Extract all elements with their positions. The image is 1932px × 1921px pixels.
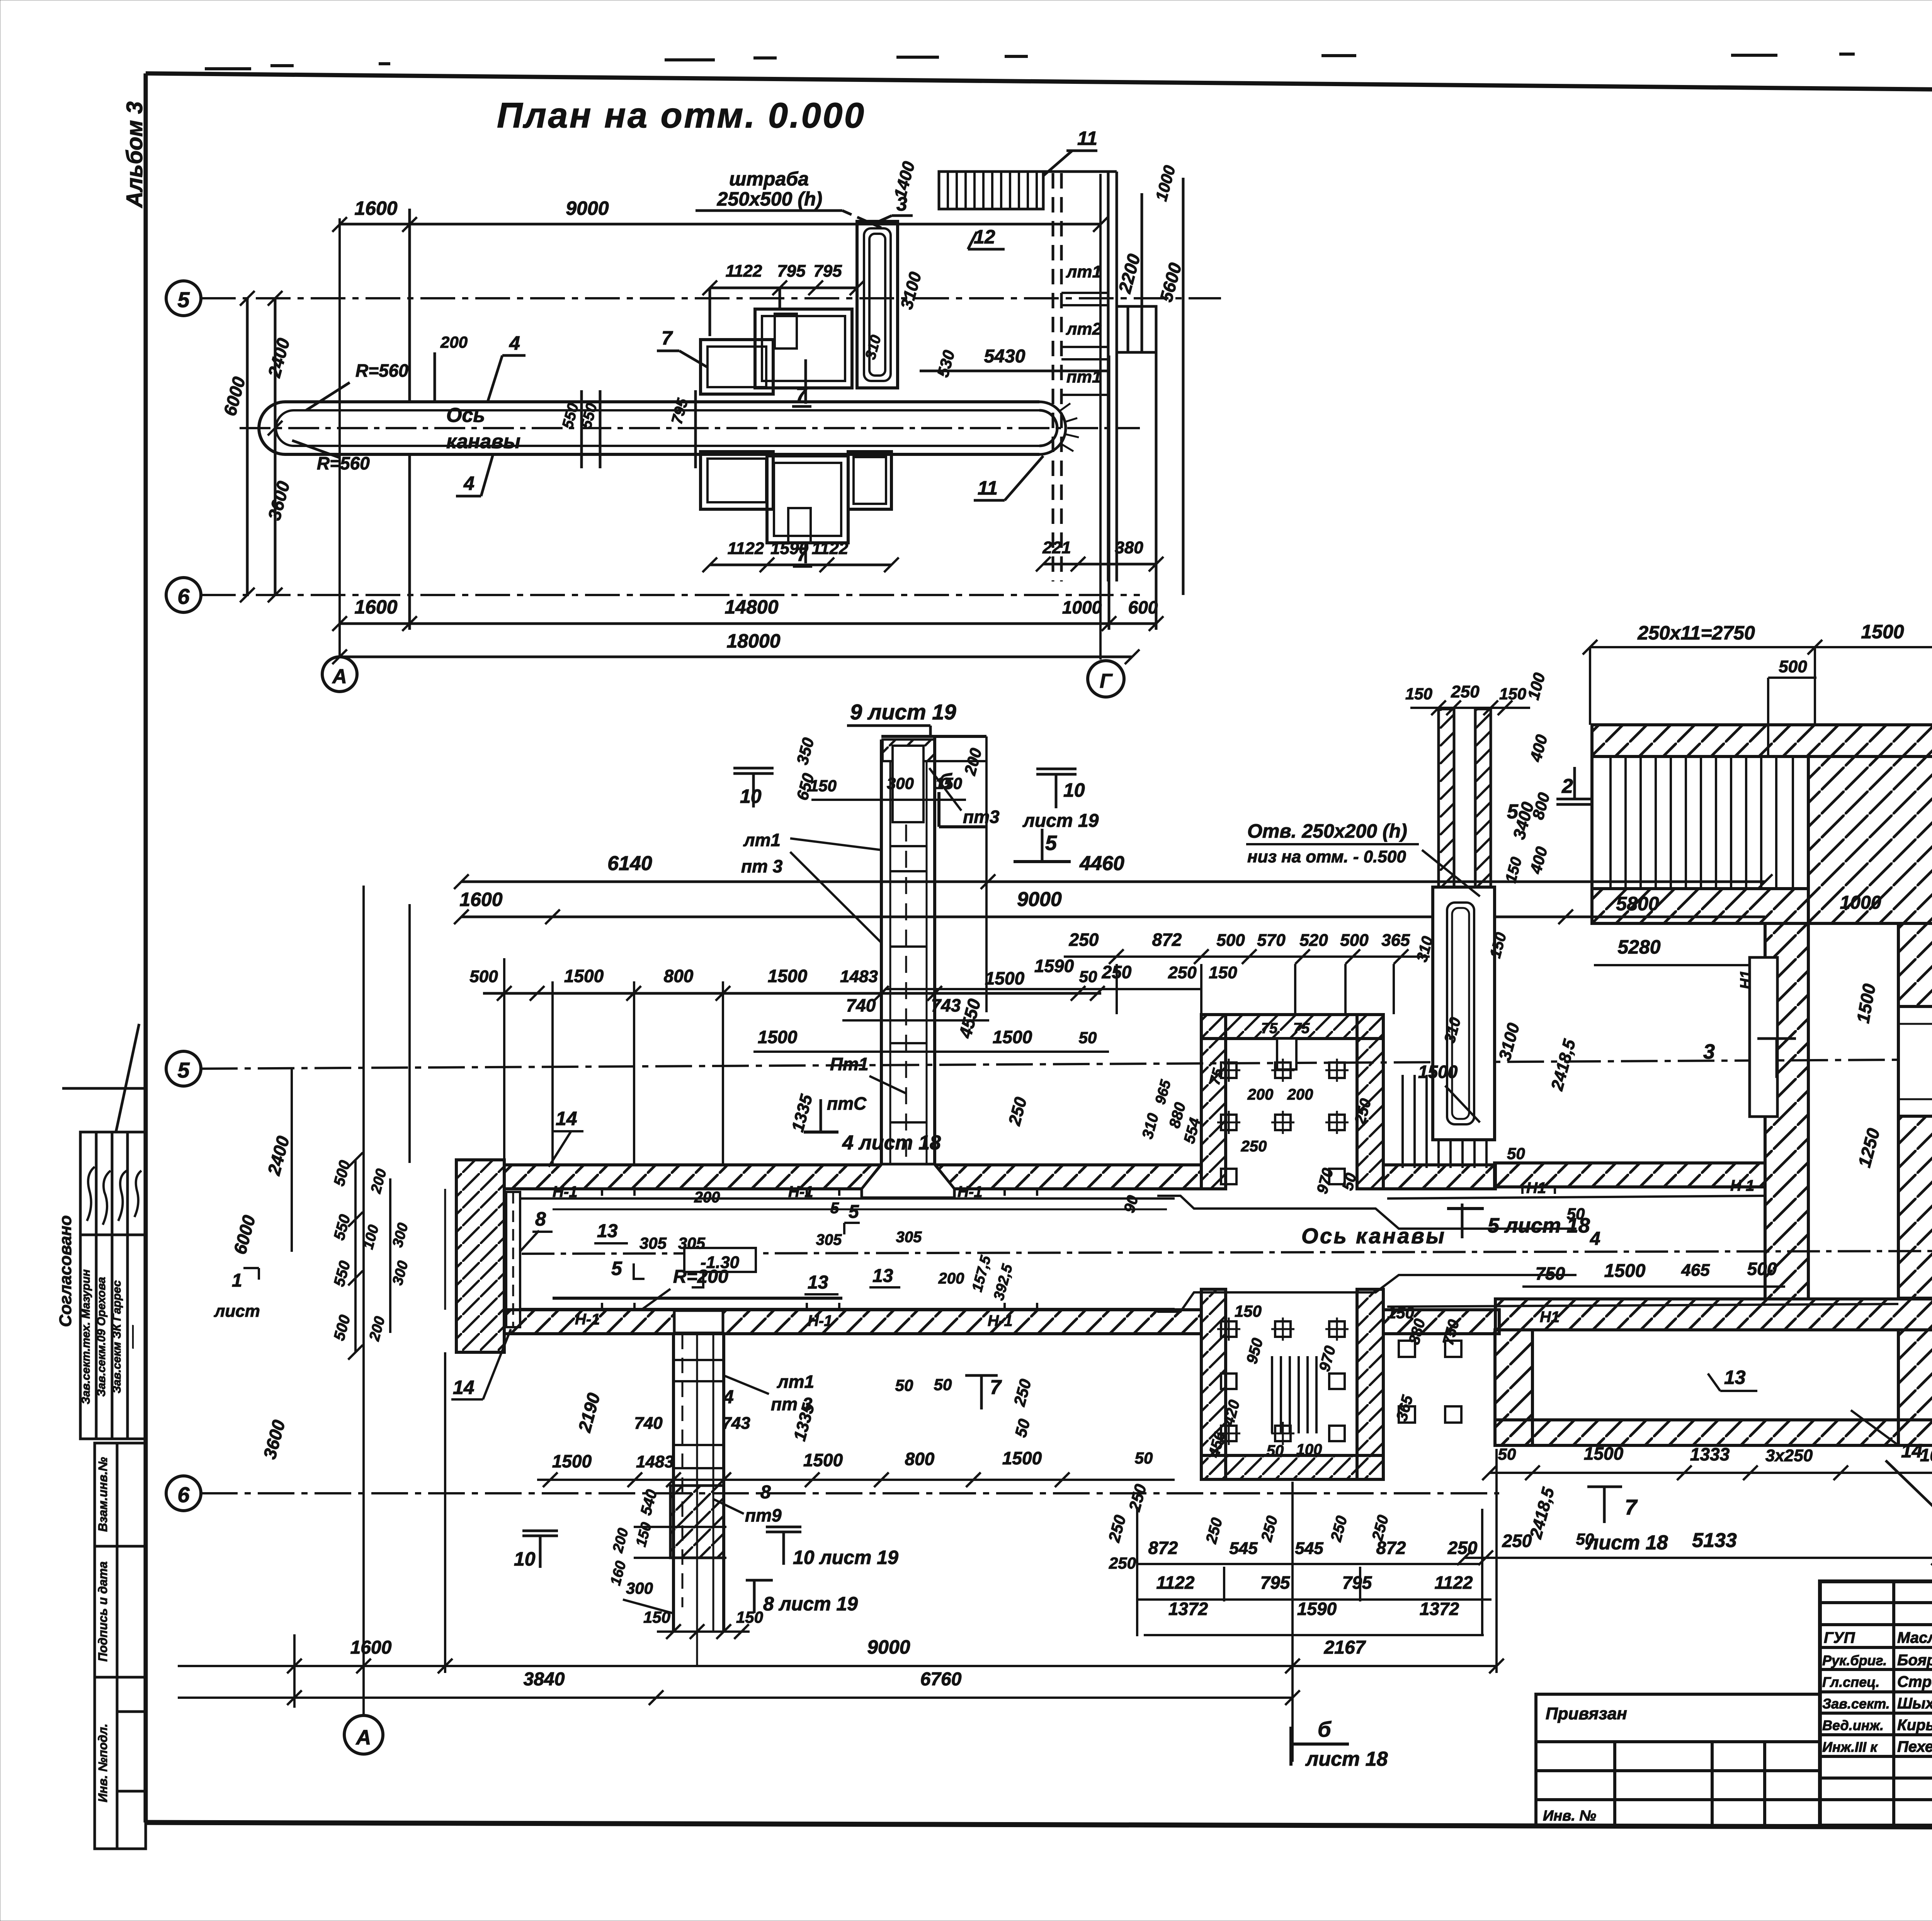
axis A circle (322, 657, 357, 692)
svg-text:2167: 2167 (1324, 1637, 1366, 1658)
right riser walls top plan (1052, 173, 1054, 581)
svg-text:200: 200 (938, 1270, 964, 1287)
dims 1122 1590 1122 bottom (710, 564, 891, 566)
svg-text:392,5: 392,5 (991, 1262, 1016, 1302)
svg-text:1000: 1000 (1920, 1445, 1932, 1465)
svg-text:1500: 1500 (1584, 1443, 1624, 1464)
main border frame (146, 73, 1932, 96)
svg-text:7: 7 (990, 1376, 1002, 1399)
svg-text:365: 365 (1381, 931, 1410, 950)
svg-text:2418,5: 2418,5 (1548, 1037, 1580, 1093)
svg-text:1500: 1500 (768, 966, 808, 986)
top dim line 1600/9000 (340, 223, 1100, 226)
svg-text:500: 500 (331, 1313, 354, 1343)
svg-text:канавы: канавы (446, 430, 520, 453)
upper grate (1403, 1075, 1486, 1168)
extension verticals upper left (408, 904, 411, 1163)
svg-text:ГУП: ГУП (1824, 1629, 1855, 1646)
svg-text:300: 300 (626, 1579, 653, 1597)
svg-text:400: 400 (1526, 845, 1551, 876)
svg-text:50: 50 (1567, 1205, 1585, 1223)
svg-text:11: 11 (978, 477, 998, 499)
svg-text:Инв. №: Инв. № (1543, 1808, 1596, 1824)
svg-text:2400: 2400 (264, 336, 294, 380)
axis 6 circle (166, 1476, 201, 1511)
dim 5430 (920, 370, 1108, 372)
svg-text:10: 10 (740, 785, 762, 807)
svg-text:400: 400 (1526, 733, 1551, 764)
pads lower cluster (701, 452, 891, 543)
extension verticals bottom (408, 454, 411, 630)
svg-text:14: 14 (1901, 1440, 1923, 1462)
shaft bottom dim (657, 1630, 750, 1633)
svg-text:200: 200 (1287, 1086, 1313, 1103)
svg-text:лт1: лт1 (1066, 262, 1102, 281)
svg-text:8: 8 (760, 1482, 771, 1503)
riser funnel into corridor (862, 1165, 881, 1198)
svg-text:6760: 6760 (920, 1669, 962, 1690)
svg-text:птС: птС (827, 1093, 867, 1113)
svg-text:795: 795 (813, 262, 842, 280)
svg-text:2190: 2190 (574, 1391, 604, 1435)
svg-text:465: 465 (1681, 1261, 1710, 1280)
svg-text:3840: 3840 (524, 1669, 565, 1690)
axis G line (1099, 174, 1102, 660)
svg-text:150: 150 (935, 774, 962, 792)
section sym 5 list mid (1461, 1204, 1464, 1238)
svg-text:6140: 6140 (607, 852, 652, 875)
svg-text:800: 800 (664, 966, 694, 986)
svg-text:3100: 3100 (897, 270, 925, 311)
svg-text:75: 75 (1293, 1020, 1310, 1037)
inventory strip (95, 1443, 146, 1849)
axis 5 circle (166, 281, 201, 316)
svg-text:13: 13 (808, 1272, 828, 1293)
svg-text:Шыхратова: Шыхратова (1897, 1695, 1932, 1712)
svg-text:300: 300 (389, 1259, 412, 1287)
axis 5 line (201, 297, 1221, 299)
approval signatures squiggles (87, 1167, 95, 1221)
svg-text:1: 1 (232, 1270, 242, 1291)
sheet top scan dashes (205, 53, 1932, 69)
right slot element strips (1439, 709, 1454, 889)
right slot element body (1433, 887, 1495, 1140)
svg-text:250: 250 (1447, 1538, 1478, 1558)
svg-text:штраба: штраба (729, 168, 809, 190)
lower right room walls (1495, 1330, 1532, 1445)
svg-text:570: 570 (1257, 931, 1286, 950)
svg-text:500: 500 (1340, 931, 1369, 950)
svg-text:550: 550 (331, 1213, 354, 1242)
axis 5 line bottom plan (201, 1059, 1932, 1069)
svg-text:250: 250 (1451, 682, 1480, 701)
svg-text:5: 5 (830, 1200, 839, 1217)
svg-text:5133: 5133 (1692, 1529, 1737, 1552)
svg-text:4: 4 (723, 1387, 734, 1408)
section sym 7 lower (965, 1374, 998, 1377)
svg-text:50: 50 (1267, 1442, 1284, 1459)
svg-text:Взам.инв.№: Взам.инв.№ (96, 1457, 110, 1532)
svg-text:13: 13 (872, 1266, 893, 1286)
svg-text:90: 90 (1121, 1193, 1141, 1214)
svg-text:250: 250 (1069, 930, 1099, 950)
svg-text:Инж.III к: Инж.III к (1822, 1739, 1878, 1755)
svg-text:10: 10 (514, 1548, 536, 1570)
svg-text:500: 500 (1216, 931, 1245, 950)
svg-text:Н-1: Н-1 (808, 1312, 832, 1329)
svg-text:50: 50 (1079, 1028, 1097, 1047)
svg-text:лт1: лт1 (777, 1372, 814, 1392)
svg-text:1500: 1500 (1604, 1261, 1646, 1281)
axis 6 circle (166, 578, 201, 612)
svg-text:200: 200 (694, 1189, 720, 1206)
svg-text:лт1: лт1 (743, 830, 781, 850)
svg-text:Вед.инж.: Вед.инж. (1822, 1717, 1884, 1733)
lower right sub pads (1399, 1341, 1415, 1357)
svg-text:1333: 1333 (1690, 1444, 1730, 1464)
svg-text:лист 18: лист 18 (1305, 1748, 1388, 1770)
bottom dim row2 (178, 1697, 1293, 1699)
svg-text:Рук.бриг.: Рук.бриг. (1822, 1652, 1887, 1668)
svg-text:1500: 1500 (1418, 1062, 1458, 1082)
svg-text:500: 500 (1747, 1259, 1777, 1279)
svg-text:250: 250 (1109, 1554, 1136, 1572)
riser rungs (890, 846, 927, 1122)
svg-text:50: 50 (1011, 1417, 1033, 1439)
svg-text:200: 200 (366, 1315, 388, 1343)
svg-text:650: 650 (793, 771, 818, 802)
dim 5600 (1182, 178, 1185, 595)
svg-text:50: 50 (934, 1375, 952, 1394)
svg-text:545: 545 (1229, 1539, 1258, 1558)
svg-text:1122: 1122 (1156, 1572, 1195, 1593)
approval stamp table (80, 1132, 146, 1439)
svg-text:5: 5 (177, 1058, 190, 1082)
element 3 slot (857, 221, 898, 388)
svg-text:6000: 6000 (219, 374, 249, 418)
staff grid rows (1820, 1601, 1932, 1604)
pads upper cluster (701, 309, 852, 394)
svg-text:250: 250 (1105, 1513, 1129, 1544)
svg-text:1600: 1600 (354, 197, 397, 219)
top dim row 1600/9000 (461, 916, 1765, 918)
svg-text:лист 18: лист 18 (1585, 1532, 1668, 1554)
svg-text:310: 310 (1139, 1112, 1162, 1141)
svg-text:200: 200 (440, 333, 468, 351)
svg-text:1500: 1500 (1861, 621, 1904, 643)
svg-text:2400: 2400 (264, 1134, 293, 1178)
svg-text:520: 520 (1299, 931, 1328, 950)
top dim row 6140/4460 (461, 881, 1765, 883)
riser column shaft top (880, 739, 883, 1165)
svg-text:Н-1: Н-1 (553, 1183, 577, 1200)
svg-text:18000: 18000 (726, 630, 780, 652)
svg-text:Привязан: Привязан (1546, 1704, 1627, 1723)
svg-text:1335: 1335 (788, 1092, 816, 1134)
svg-text:250: 250 (1241, 1138, 1267, 1155)
svg-text:3600: 3600 (259, 1418, 289, 1461)
svg-text:150: 150 (1387, 1304, 1414, 1322)
svg-text:221: 221 (1042, 538, 1071, 557)
svg-text:150: 150 (633, 1521, 655, 1549)
svg-text:Гл.спец.: Гл.спец. (1822, 1674, 1879, 1690)
svg-text:Н-1: Н-1 (788, 1183, 813, 1200)
lower pads squares (1217, 1317, 1349, 1445)
extension verticals bottom (293, 1634, 296, 1708)
svg-text:100: 100 (1524, 671, 1549, 702)
svg-text:лт2: лт2 (1066, 320, 1102, 338)
svg-text:14: 14 (556, 1108, 577, 1129)
svg-text:365: 365 (1393, 1393, 1417, 1423)
svg-text:4: 4 (463, 473, 474, 494)
svg-text:970: 970 (1314, 1166, 1337, 1196)
trench inner (276, 410, 1039, 446)
corridor inner lines (521, 1197, 1175, 1200)
svg-text:Зав.сект.тех. Мазурин: Зав.сект.тех. Мазурин (80, 1269, 92, 1404)
svg-text:1500: 1500 (993, 1027, 1032, 1047)
svg-text:795: 795 (1342, 1572, 1372, 1593)
svg-text:пт3: пт3 (963, 807, 1000, 827)
svg-text:300: 300 (389, 1221, 412, 1249)
left end block (456, 1160, 504, 1352)
svg-text:157,5: 157,5 (969, 1254, 994, 1294)
staff grid columns (1892, 1581, 1895, 1826)
svg-text:1590: 1590 (1297, 1599, 1337, 1619)
svg-text:1500: 1500 (758, 1027, 798, 1047)
svg-text:9000: 9000 (867, 1636, 910, 1658)
room door opening (1898, 1006, 1932, 1116)
svg-text:2200: 2200 (1114, 252, 1144, 296)
svg-text:Зав.секм ЗК Гаррес: Зав.секм ЗК Гаррес (111, 1280, 123, 1393)
svg-text:250: 250 (1168, 963, 1197, 982)
svg-text:50: 50 (1507, 1144, 1525, 1163)
cell ticks right riser (1061, 293, 1108, 395)
svg-text:305: 305 (678, 1234, 706, 1252)
svg-text:1600: 1600 (354, 596, 397, 618)
svg-text:4: 4 (1590, 1229, 1600, 1249)
svg-text:150: 150 (1209, 963, 1237, 982)
svg-text:9000: 9000 (1017, 888, 1062, 911)
svg-text:Н1: Н1 (1526, 1180, 1546, 1197)
svg-text:5800: 5800 (1616, 893, 1659, 915)
stair shaft bottom (672, 1334, 675, 1632)
svg-text:Н-1: Н-1 (957, 1183, 982, 1200)
svg-text:Н 1: Н 1 (1730, 1177, 1754, 1194)
section sym 10 right riser (1036, 769, 1077, 774)
big room top wall (1592, 725, 1932, 756)
svg-text:250: 250 (1327, 1514, 1350, 1544)
svg-text:872: 872 (1152, 930, 1182, 950)
dim 2200 (1141, 193, 1143, 352)
svg-text:300: 300 (887, 774, 914, 792)
svg-text:50: 50 (1135, 1449, 1153, 1467)
axis A circle (344, 1715, 383, 1754)
svg-text:3: 3 (896, 193, 907, 215)
svg-text:1000: 1000 (1062, 597, 1102, 617)
section sym 4 list18 (804, 1130, 838, 1134)
svg-text:743: 743 (722, 1414, 750, 1433)
svg-text:8: 8 (535, 1208, 546, 1230)
riser cap hatch (883, 739, 935, 761)
axis 6 line (201, 594, 1140, 596)
svg-text:4460: 4460 (1079, 852, 1124, 875)
svg-text:750: 750 (1536, 1263, 1565, 1283)
svg-text:250: 250 (1005, 1095, 1031, 1128)
svg-text:1500: 1500 (564, 966, 604, 986)
big room outer (1592, 725, 1932, 1298)
dims 221 380 (1043, 563, 1156, 566)
svg-text:150: 150 (1235, 1302, 1262, 1320)
trench right cap (1039, 402, 1066, 454)
svg-text:1122: 1122 (812, 539, 849, 558)
svg-text:R=560: R=560 (317, 453, 370, 473)
svg-text:10: 10 (1063, 779, 1085, 801)
privyazan table (1536, 1694, 1820, 1826)
dim 5133 line (1464, 1557, 1932, 1559)
svg-text:Согласовано: Согласовано (56, 1215, 75, 1327)
svg-text:14: 14 (453, 1377, 474, 1398)
svg-text:Ось канавы: Ось канавы (1301, 1224, 1444, 1248)
svg-text:Н1: Н1 (1540, 1309, 1560, 1326)
svg-text:1483: 1483 (636, 1452, 674, 1471)
bottom dim 18000 (340, 656, 1132, 658)
svg-text:1000: 1000 (1152, 163, 1179, 203)
svg-text:13: 13 (597, 1221, 618, 1241)
svg-text:9 лист 19: 9 лист 19 (850, 700, 956, 724)
svg-text:5: 5 (1045, 831, 1057, 855)
left niche bracket (506, 1192, 520, 1327)
svg-text:Пт1: Пт1 (830, 1054, 869, 1074)
svg-text:3100: 3100 (1495, 1021, 1524, 1062)
svg-text:6000: 6000 (230, 1213, 259, 1256)
svg-text:50: 50 (1498, 1445, 1516, 1463)
svg-text:75: 75 (1261, 1020, 1278, 1037)
svg-text:А: А (355, 1726, 371, 1749)
corridor lower hatched band (504, 1310, 1201, 1334)
svg-text:380: 380 (1115, 538, 1143, 557)
svg-text:1122: 1122 (1435, 1572, 1473, 1593)
section sym 10 left riser (733, 768, 774, 773)
section mark 5 top (1014, 860, 1071, 863)
axis 5 circle left (166, 1051, 201, 1086)
svg-text:2: 2 (1561, 775, 1573, 797)
lower right room bottom dims (1490, 1472, 1932, 1474)
svg-text:545: 545 (1295, 1539, 1323, 1558)
section sym 8 shaft (753, 1580, 756, 1613)
svg-text:250: 250 (1202, 1516, 1226, 1546)
svg-text:6: 6 (177, 584, 190, 609)
section sym b list18 bottom (1289, 1727, 1293, 1766)
svg-text:5430: 5430 (984, 346, 1026, 367)
svg-text:872: 872 (1148, 1538, 1178, 1558)
svg-text:250: 250 (1102, 962, 1132, 982)
svg-text:740: 740 (634, 1414, 663, 1433)
svg-text:795: 795 (777, 262, 806, 280)
section sym 10 right shaft (766, 1527, 801, 1532)
svg-text:Отв. 250х200 (h): Отв. 250х200 (h) (1247, 820, 1407, 842)
svg-text:1483: 1483 (840, 967, 878, 986)
axis A vertical (362, 886, 365, 1715)
svg-text:970: 970 (1316, 1344, 1339, 1374)
svg-text:1122: 1122 (726, 262, 762, 280)
svg-text:250х500 (h): 250х500 (h) (717, 188, 822, 210)
left dim chain (246, 298, 249, 595)
svg-text:1372: 1372 (1420, 1599, 1459, 1619)
svg-text:150: 150 (1405, 685, 1432, 703)
svg-text:305: 305 (896, 1229, 922, 1246)
dims 1122 795 795 top (710, 287, 857, 289)
svg-text:500: 500 (331, 1159, 354, 1188)
svg-text:250: 250 (1258, 1514, 1281, 1544)
stair shaft hatch block (670, 1486, 724, 1558)
svg-text:План на отм. 0.000: План на отм. 0.000 (497, 96, 864, 135)
upper pads enclosure walls (1201, 1015, 1383, 1189)
svg-text:Альбом 3: Альбом 3 (122, 101, 147, 208)
svg-text:7: 7 (662, 327, 673, 349)
svg-text:13: 13 (1724, 1367, 1746, 1388)
axis G circle (1088, 661, 1124, 697)
svg-text:1590: 1590 (770, 539, 808, 558)
top slot dims (1410, 707, 1530, 709)
trench edge bend right (1157, 1196, 1577, 1229)
svg-text:800: 800 (905, 1449, 935, 1469)
svg-text:5280: 5280 (1617, 936, 1660, 958)
svg-text:1500: 1500 (803, 1450, 843, 1470)
upper pads squares (1217, 1059, 1349, 1184)
minus130 box (684, 1248, 756, 1272)
svg-text:305: 305 (816, 1231, 842, 1248)
trench outer (259, 402, 1039, 454)
svg-text:743: 743 (931, 995, 961, 1015)
svg-text:9000: 9000 (566, 197, 609, 219)
section sym 7 right room (1587, 1486, 1622, 1488)
svg-text:лист: лист (214, 1302, 260, 1321)
svg-text:10 лист 19: 10 лист 19 (793, 1547, 898, 1568)
svg-text:150: 150 (736, 1608, 763, 1626)
big room left wall (1765, 923, 1808, 1299)
svg-text:5: 5 (177, 287, 190, 312)
top room dim row (1590, 646, 1932, 648)
svg-text:7: 7 (1625, 1495, 1638, 1519)
svg-text:пт 3: пт 3 (741, 856, 783, 876)
svg-text:Маслеников: Маслеников (1897, 1629, 1932, 1646)
upper enclosure top notch (1277, 1039, 1296, 1069)
svg-text:200: 200 (368, 1167, 390, 1195)
svg-text:950: 950 (1243, 1336, 1267, 1366)
section sym 2 room (1556, 799, 1594, 804)
svg-text:6: 6 (177, 1482, 190, 1507)
svg-text:600: 600 (1128, 597, 1158, 617)
svg-text:Н-1: Н-1 (988, 1312, 1012, 1329)
left vertical dim chains (291, 1069, 293, 1252)
svg-text:305: 305 (639, 1234, 667, 1252)
svg-text:Пехенько: Пехенько (1897, 1738, 1932, 1755)
svg-text:310: 310 (862, 333, 884, 361)
svg-text:150: 150 (1499, 685, 1526, 703)
trench axis centerline (522, 1251, 1932, 1254)
svg-text:8 лист 19: 8 лист 19 (763, 1593, 858, 1615)
svg-text:1122: 1122 (728, 539, 764, 558)
svg-text:200: 200 (1247, 1086, 1274, 1103)
svg-text:500: 500 (1779, 657, 1807, 676)
svg-text:Ось: Ось (446, 404, 485, 427)
svg-text:низ на отм. - 0.500: низ на отм. - 0.500 (1247, 847, 1406, 866)
svg-text:А: А (332, 665, 347, 688)
svg-text:350: 350 (793, 736, 818, 767)
section sym 3 room (1757, 1037, 1796, 1040)
mid dim rows right of riser (1064, 955, 1430, 958)
title block outer (1820, 1581, 1932, 1826)
